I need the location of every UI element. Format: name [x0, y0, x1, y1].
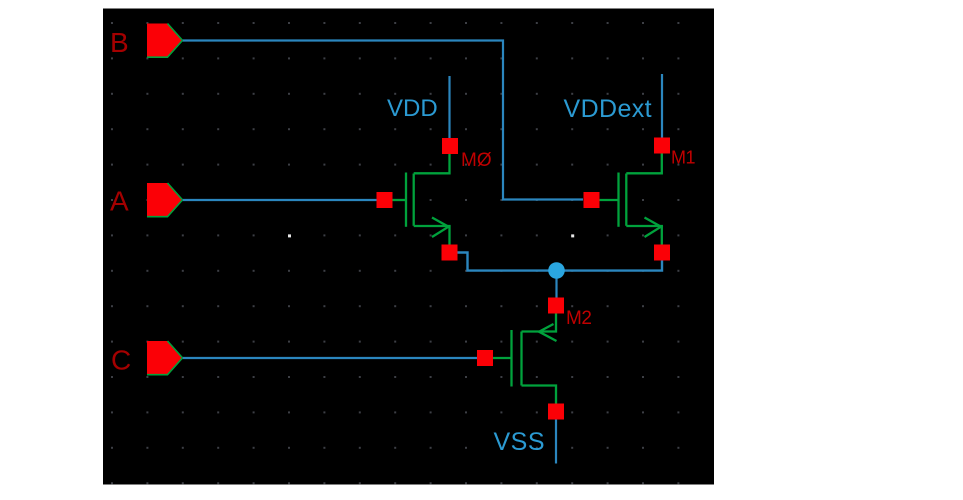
wire output branch down to M2: [555, 271, 557, 299]
wire VDDext stub to M1 drain: [661, 74, 663, 140]
major grid dot right: [571, 234, 574, 237]
M2 bottom pin square: [548, 404, 564, 420]
wire net A: from pin A to gate of M0: [182, 199, 378, 201]
wire net B: from pin B to gate of M1: [183, 41, 584, 200]
M2 top pin square: [548, 298, 564, 314]
svg-text:M2: M2: [566, 308, 591, 329]
node junction dot on output net: [548, 262, 565, 279]
schematic canvas background: [103, 9, 714, 485]
svg-text:B: B: [110, 27, 129, 58]
wire output bus: M0 source to M1 source: [457, 253, 662, 271]
svg-text:VDD: VDD: [387, 95, 438, 122]
transistor M2 body: [492, 313, 557, 404]
input pin C symbol: [147, 341, 183, 375]
M1 drain pin square: [654, 138, 670, 154]
M0 gate pin square: [377, 192, 393, 208]
major grid dot left: [288, 234, 291, 237]
M1 source pin square: [654, 245, 670, 261]
svg-text:M1: M1: [671, 148, 695, 168]
M1 gate pin square: [584, 192, 600, 208]
M2 gate pin square: [477, 350, 493, 366]
svg-text:A: A: [110, 186, 129, 217]
M0 source pin square: [442, 245, 458, 261]
wire VSS stub below M2: [555, 418, 557, 464]
svg-text:C: C: [111, 345, 131, 376]
svg-text:VSS: VSS: [494, 428, 546, 456]
wire net C: from pin C to gate of M2: [183, 357, 479, 359]
transistor M1 body: [598, 139, 662, 245]
svg-text:MØ: MØ: [461, 150, 492, 171]
wire VDD stub to M0 drain: [448, 76, 450, 140]
transistor M0 body: [390, 139, 450, 245]
svg-text:VDDext: VDDext: [564, 95, 653, 123]
input pin B symbol: [147, 24, 183, 58]
M0 drain pin square: [442, 138, 458, 154]
input pin A symbol: [147, 183, 183, 217]
